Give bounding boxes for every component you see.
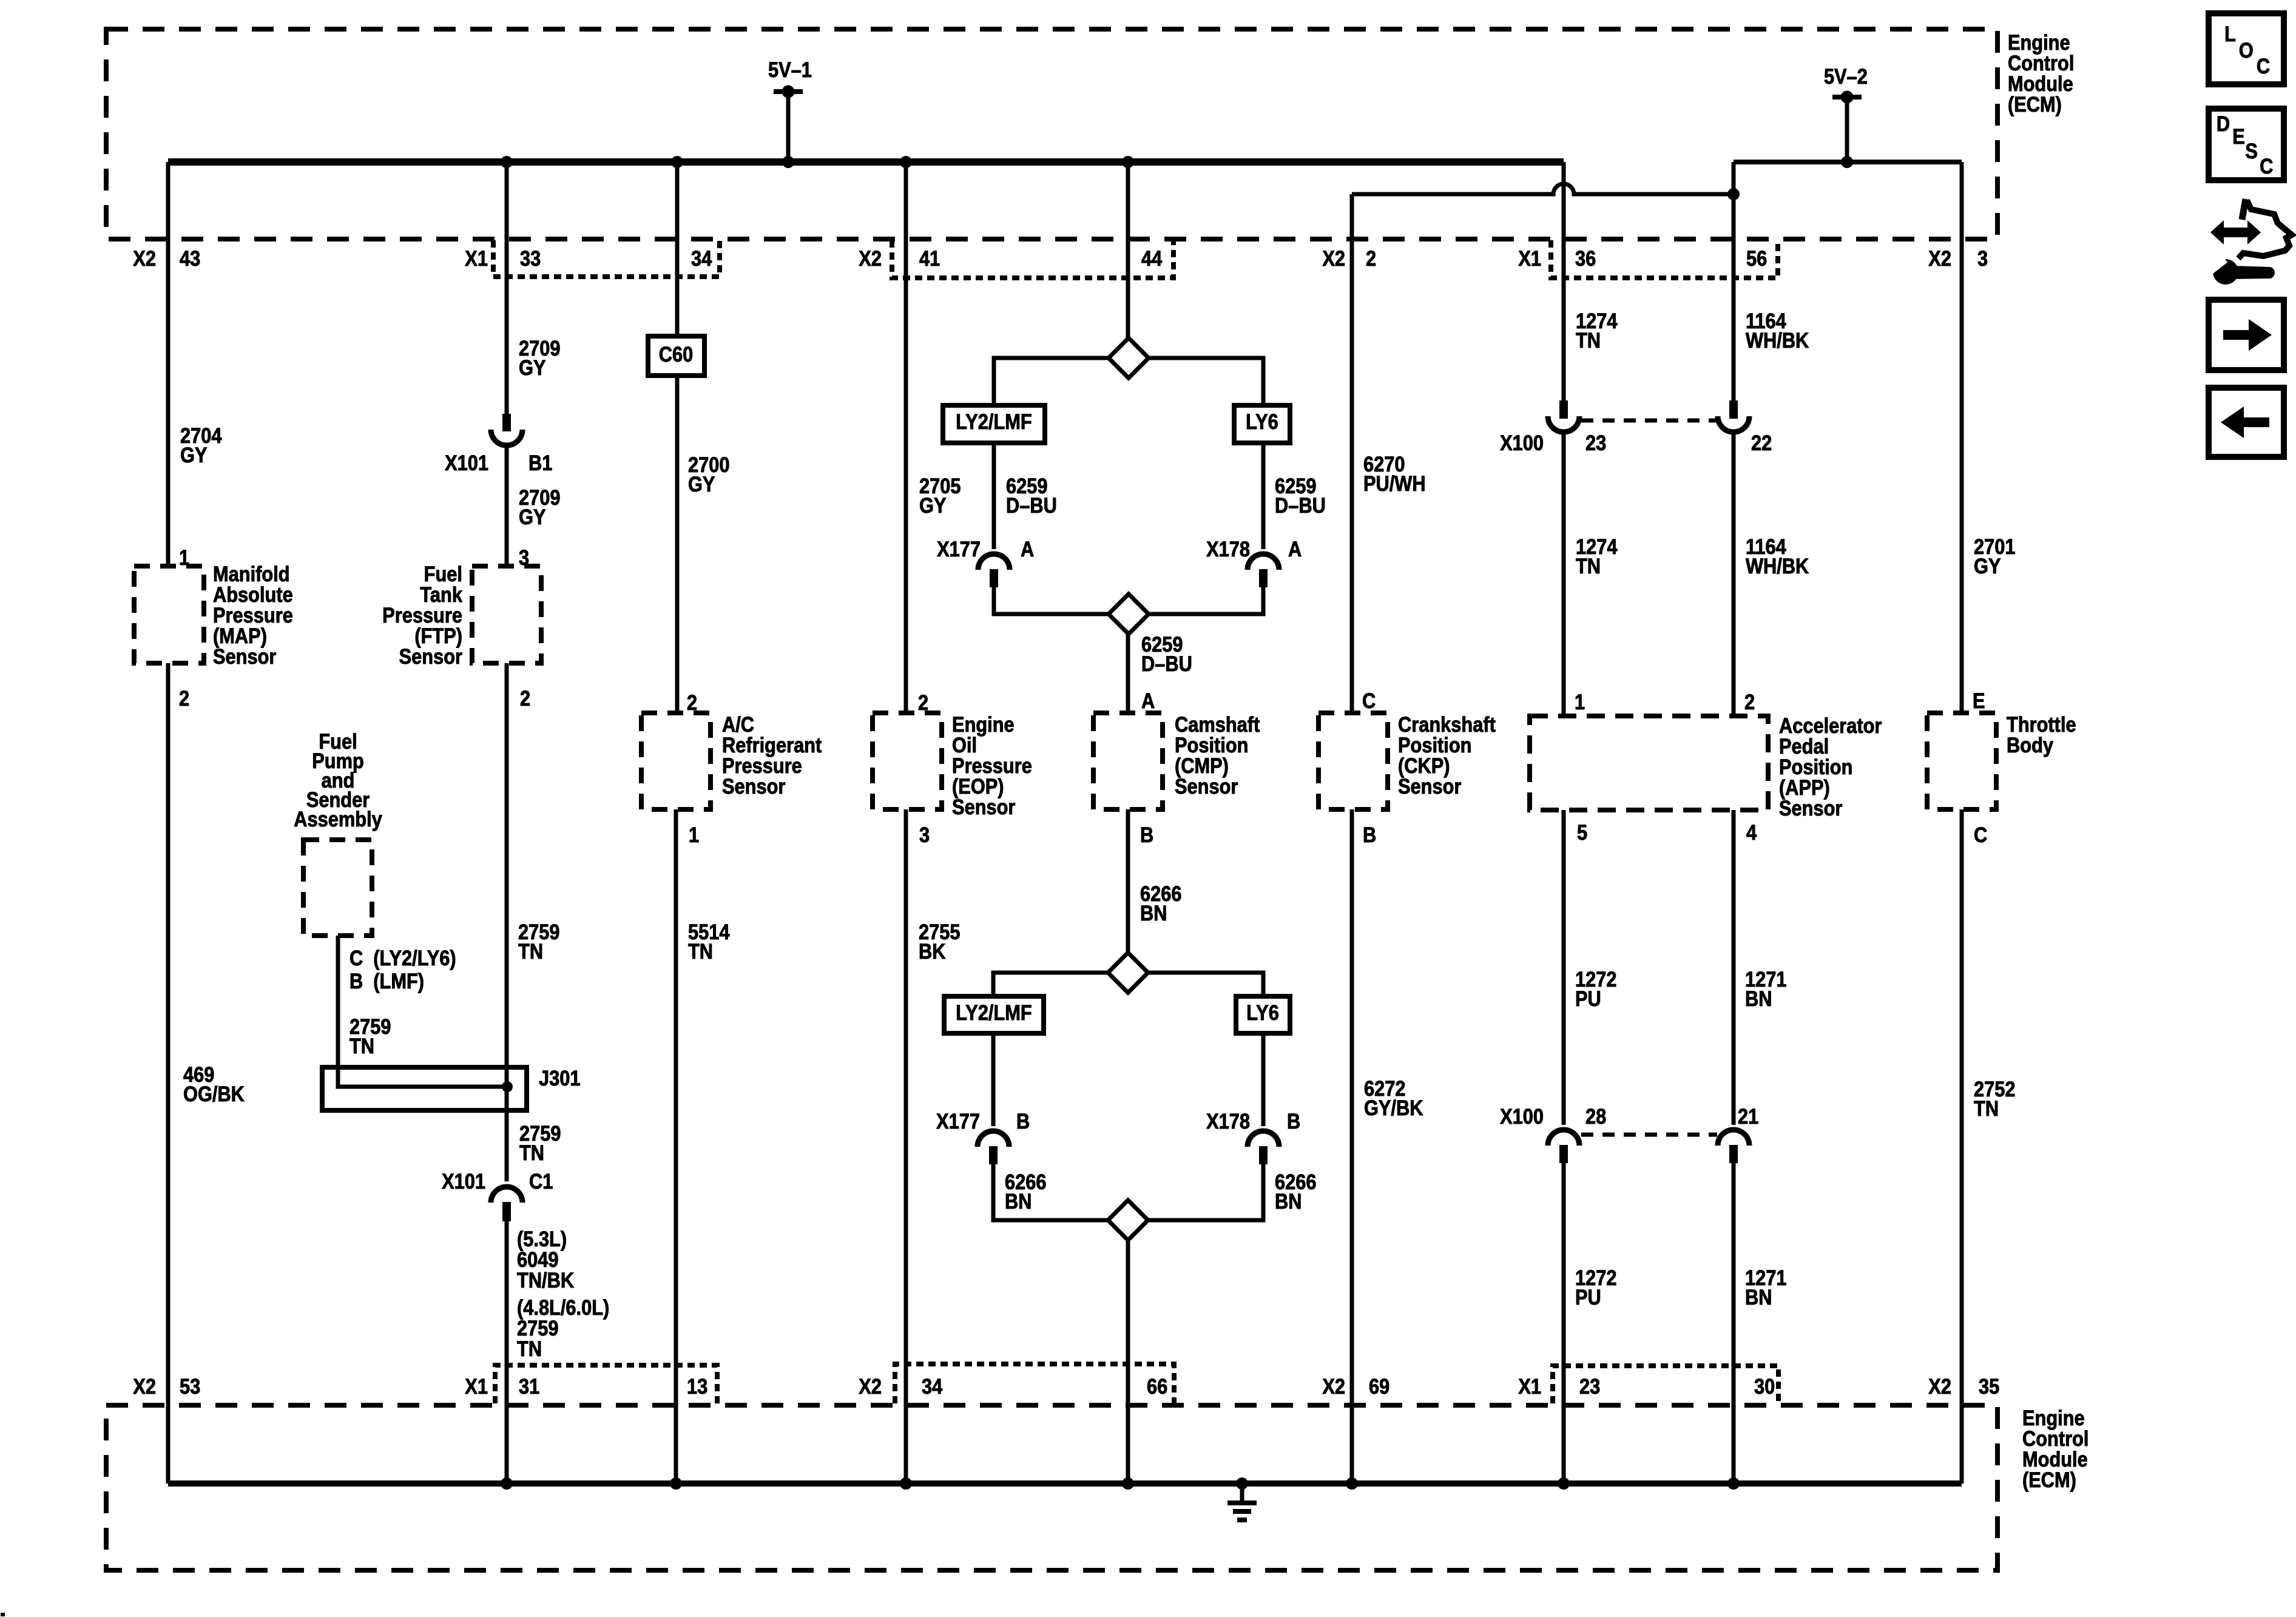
label terminal 34 top [691,246,712,270]
svg-text:B: B [1287,1109,1300,1133]
label LY2/LMF lower [956,1001,1032,1024]
svg-text:35: 35 [1979,1374,1999,1398]
connector group dotted box pins 41-44 top [892,240,1173,278]
svg-text:31: 31 [519,1374,539,1398]
label wire 2709 GY above X101 [519,336,560,379]
svg-text:TN: TN [349,1034,374,1058]
label X2 terminal 3 [1928,246,1951,270]
label Camshaft Position (CMP) Sensor [1175,712,1260,798]
svg-text:PU: PU [1575,1285,1601,1309]
pin A CMP [1141,689,1155,712]
connector X101 C1 male pin [502,1202,511,1221]
svg-text:56: 56 [1746,246,1767,270]
connector X100 dashed link top [1581,419,1717,423]
svg-text:B: B [1140,823,1153,846]
label wire 1274 TN upper [1576,309,1618,352]
wire 6266 BN LY2/LMF branch [991,1033,996,1126]
label terminal B of X177 [1016,1109,1030,1133]
label connector X178 at B [1206,1109,1250,1133]
label X2 terminal 2 [1322,246,1345,270]
splice diamond upper collect [1109,594,1149,634]
svg-text:BK: BK [919,939,946,963]
label connector X101 [445,451,488,474]
svg-text:OG/BK: OG/BK [183,1082,245,1106]
svg-text:X177: X177 [937,537,981,561]
label connector X177 at A [937,537,981,561]
wire 6259 D-BU to CMP pin A [1126,633,1130,713]
node junction ground bus at APP2 wire [1727,1477,1740,1490]
label terminal A of X177 [1021,537,1034,561]
wire 6270 PU/WH CKP signal [1350,194,1354,713]
label wire 2700 GY [688,453,729,496]
svg-text:69: 69 [1369,1374,1389,1398]
node junction ground bus at EOP wire [900,1477,912,1490]
label wire 1272 PU upper [1575,967,1616,1010]
svg-text:Sensor: Sensor [1779,796,1843,820]
wire ground bus bottom [168,1480,1962,1487]
A/C Refrigerant Pressure Sensor dashed box [641,713,711,809]
node junction ground bus at FTP wire [501,1477,513,1490]
svg-text:C: C [1974,823,1987,846]
svg-text:X2: X2 [133,1374,156,1398]
svg-text:X1: X1 [465,1374,488,1398]
splice diamond upper feed [1109,338,1149,378]
svg-text:34: 34 [691,246,712,270]
svg-text:GY: GY [180,443,208,467]
label pin C (LY2/LY6) [349,946,456,970]
svg-text:X2: X2 [133,246,156,270]
label wire 1164 WH/BK upper [1746,309,1809,352]
svg-text:D–BU: D–BU [1141,652,1192,675]
label terminal 44 top [1141,246,1163,270]
icon box arrow right [2209,300,2284,370]
wire branch LY2/LMF upper [994,358,1109,405]
wire 6272 GY/BK to terminal 69 [1350,809,1354,1484]
label wire 2759 TN below J301 [519,1121,561,1164]
Accelerator Pedal Position (APP) Sensor dashed box [1530,716,1768,810]
wire 469 OG/BK MAP low reference [166,663,171,1484]
label wire 6259 D-BU to CMP [1141,632,1192,675]
svg-text:D–BU: D–BU [1006,493,1057,517]
pin 2 MAP [179,686,189,710]
label C60 [659,342,693,366]
Crankshaft Position (CKP) Sensor dashed box [1319,713,1388,809]
svg-text:A: A [1288,537,1302,561]
node junction 5V-1 bus at 5V-1 stem [782,156,794,168]
label wire 6266 BN below CMP [1140,882,1181,925]
connector X178 A female cup [1248,554,1279,570]
label wire 2701 GY [1974,535,2015,578]
label terminal 13 bottom [687,1374,707,1398]
connector X100 22 male pin [1729,400,1738,419]
pin 2 FTP [520,686,530,710]
connector group dotted box pins 33-34 top [493,240,720,277]
label terminal 66 bottom [1147,1374,1167,1398]
connector group dotted box pins 23-30 bottom [1553,1366,1778,1403]
wire below X177 A to splice [994,587,1109,614]
connector X100 28 male pin [1559,1145,1568,1163]
label terminal B of X178 [1287,1109,1300,1133]
connector group dotted box pins 34-66 bottom [895,1364,1174,1403]
engine option box LY2/LMF upper [943,405,1045,443]
ground symbol [1227,1484,1257,1520]
svg-text:TN: TN [517,1337,542,1360]
svg-text:X178: X178 [1206,537,1250,561]
connector X178 B female cup [1248,1131,1279,1147]
svg-text:X100: X100 [1500,1104,1544,1128]
svg-text:X101: X101 [445,451,488,474]
svg-text:2: 2 [179,686,189,710]
svg-text:X1: X1 [465,246,488,270]
wire 6266 BN LY6 branch [1261,1033,1266,1126]
label terminal C1 [529,1169,553,1193]
icon letters LOC [2224,22,2270,78]
svg-text:GY: GY [519,356,546,379]
svg-text:2: 2 [520,686,530,710]
wire 6266 BN from CMP pin B [1126,809,1130,953]
svg-text:TN: TN [1974,1096,1999,1120]
label J301 [539,1066,580,1090]
ECM top dashed box [106,29,1997,239]
svg-text:Assembly: Assembly [294,807,382,831]
label Accelerator Pedal Position (APP) Sensor [1779,714,1882,820]
svg-text:A: A [1021,537,1034,561]
svg-text:C: C [2257,54,2270,78]
svg-text:GY: GY [519,505,546,528]
svg-text:5: 5 [1577,820,1587,844]
svg-text:X2: X2 [859,246,882,270]
node junction J301 [502,1081,513,1092]
connector X101 C1 female cup [491,1187,522,1203]
wire 2705 GY EOP signal [904,162,908,713]
label connector X178 at A [1206,537,1250,561]
svg-text:X2: X2 [1928,246,1951,270]
label wire 1274 TN lower [1576,535,1618,578]
svg-text:E: E [2232,124,2245,148]
svg-text:X2: X2 [1322,1374,1345,1398]
connector X100 22 female cup [1718,416,1749,432]
wire CKP 5V feed link with hop [1352,184,1734,194]
connector X100 23 female cup [1548,416,1579,432]
pin B CMP [1140,823,1153,846]
svg-text:44: 44 [1141,246,1163,270]
svg-text:1: 1 [689,823,699,846]
pin E throttle [1973,689,1985,712]
svg-text:(ECM): (ECM) [2008,92,2062,116]
MAP sensor dashed box [134,566,204,663]
label Fuel Tank Pressure (FTP) Sensor [382,562,462,668]
svg-text:TN/BK: TN/BK [517,1268,574,1292]
icon box arrow left [2209,388,2284,457]
label pin B (LMF) [349,969,424,993]
label wire 2759 TN above J301 [518,920,559,963]
svg-text:43: 43 [180,246,200,270]
engine option box LY2/LMF lower [944,996,1044,1033]
label LY6 lower [1246,1001,1279,1024]
svg-text:3: 3 [919,823,930,846]
svg-text:GY: GY [919,493,947,517]
icon arrow left [2221,407,2269,438]
connector group dotted box pins 36-56 top [1551,240,1778,278]
label Crankshaft Position (CKP) Sensor [1398,712,1496,798]
page artifact dot bottom-left [1,1613,5,1616]
svg-text:23: 23 [1579,1374,1600,1398]
label wire 469 OG/BK [183,1062,245,1106]
pin C throttle [1974,823,1987,846]
svg-text:C (LY2/LY6): C (LY2/LY6) [349,946,456,970]
label 5V-1 [768,58,812,81]
svg-text:21: 21 [1738,1104,1758,1128]
label terminal 30 bottom [1754,1374,1775,1398]
svg-text:LY6: LY6 [1246,410,1278,433]
connector group dotted box pins 31-13 bottom [495,1365,717,1403]
svg-text:PU/WH: PU/WH [1363,471,1426,495]
svg-text:Sensor: Sensor [952,795,1016,819]
wire 2709 GY FTP signal upper [505,162,509,414]
pin 3 EOP [919,823,930,846]
svg-text:5V–2: 5V–2 [1824,64,1868,88]
svg-text:22: 22 [1751,431,1772,454]
connector X101 B1 male pin [502,414,511,431]
connector X177 A female cup [978,554,1010,570]
wire 1272 PU from APP pin 5 [1562,810,1566,1125]
wire branch LY6 upper [1149,358,1263,405]
label wire 1272 PU lower [1575,1266,1616,1309]
svg-text:X1: X1 [1518,1374,1541,1398]
engine option box LY6 upper [1234,405,1290,443]
node junction ground bus at CKP wire [1346,1477,1358,1490]
wire 1274 TN from terminal 36 [1562,162,1566,400]
connector X177 B male pin [989,1146,998,1164]
ECM bottom dashed box [106,1405,1997,1570]
svg-text:34: 34 [922,1374,943,1398]
pin B CKP [1363,823,1376,846]
connector X177 A male pin [990,569,998,587]
5V reference 1 symbol 5V-1 [774,86,803,162]
svg-text:13: 13 [687,1374,707,1398]
Engine Oil Pressure (EOP) Sensor dashed box [873,713,942,809]
svg-text:2: 2 [1744,690,1755,714]
wire 1164 WH/BK from terminal 56 [1732,162,1736,400]
label wire 1271 BN upper [1745,967,1786,1010]
svg-text:X2: X2 [859,1374,882,1398]
label wire 6259 D-BU upper left branch [1006,474,1057,517]
node junction 5V-1 bus at EOP wire [900,156,912,168]
svg-text:B (LMF): B (LMF) [349,969,424,993]
svg-text:TN: TN [518,939,543,963]
svg-text:C60: C60 [659,342,693,366]
label wire 6270 PU/WH [1363,452,1426,495]
wire 6259 D-BU from terminal 44 [1126,162,1130,339]
splice diamond lower collect [1108,1200,1148,1240]
FTP sensor dashed box [472,566,541,663]
svg-text:TN: TN [688,939,713,963]
splice J301 box [322,1067,527,1110]
svg-text:B1: B1 [528,451,552,474]
connector X101 B1 female cup [491,430,522,445]
label Engine Control Module (ECM) bottom [2022,1406,2088,1491]
wire 5V-1 supply bus [168,158,1564,166]
node junction ground bus at C60 wire [670,1477,682,1490]
pin 2 EOP [918,690,928,714]
label connector X100 bottom [1500,1104,1544,1128]
label terminal B1 [528,451,552,474]
label X2 terminal 34 bottom [859,1374,882,1398]
svg-text:C1: C1 [529,1169,553,1193]
node junction 5V-1 bus at C60 wire [671,156,683,168]
pin 1 MAP [179,545,189,569]
label terminal 22 of X100 [1751,431,1772,454]
wire below X178 A to splice [1149,587,1263,614]
label LY2/LMF upper [956,410,1032,433]
wire 6266 BN to terminal 66 [1126,1240,1130,1484]
svg-text:WH/BK: WH/BK [1746,328,1809,352]
svg-text:B: B [1016,1109,1030,1133]
wire 1272 PU to terminal 23 [1562,1163,1566,1484]
svg-text:BN: BN [1275,1189,1302,1213]
svg-text:GY: GY [1974,554,2001,578]
wire 2700 GY below C60 [675,376,680,713]
svg-text:Sensor: Sensor [399,644,463,668]
connector X177 B female cup [977,1131,1009,1147]
label wire 2709 GY below X101 [519,485,560,528]
svg-text:LY2/LMF: LY2/LMF [956,1001,1032,1024]
label terminal 23 of X100 [1585,431,1606,454]
svg-text:X1: X1 [1518,246,1541,270]
label X2 terminal 41 [859,246,882,270]
icon adjust arrows and wrench [2207,199,2292,285]
splice diamond lower feed [1108,953,1148,993]
pin 1 APP [1575,690,1585,714]
label X2 terminal 69 bottom [1322,1374,1345,1398]
svg-text:41: 41 [919,246,940,270]
label X1 terminal 36 [1518,246,1541,270]
label wire 1271 BN lower [1745,1266,1786,1309]
node junction ground bus at APP1 wire [1558,1477,1570,1490]
svg-text:X178: X178 [1206,1109,1250,1133]
wire 2759 TN below J301 [505,1087,509,1181]
svg-text:1: 1 [1575,690,1585,714]
svg-text:33: 33 [520,246,541,270]
svg-text:B: B [1363,823,1376,846]
label X1 terminal 23 bottom [1518,1374,1541,1398]
label X2 terminal 35 bottom [1928,1374,1951,1398]
wire 2755 BK to terminal 34 [904,809,908,1484]
svg-text:GY: GY [688,472,715,496]
node junction ground bus at ground stub wire [1236,1477,1248,1490]
pin 5 APP [1577,820,1587,844]
svg-text:TN: TN [1576,554,1601,578]
label connector X100 top [1500,431,1544,454]
label wire 2755 BK [919,920,960,963]
connector X178 B male pin [1259,1146,1268,1164]
label LY6 upper [1246,410,1278,433]
svg-text:GY/BK: GY/BK [1364,1096,1423,1119]
pin 2 A/C sensor [687,690,697,714]
pin 3 FTP [519,545,529,569]
pin C CKP [1362,689,1376,712]
svg-text:TN: TN [519,1141,544,1164]
svg-text:X2: X2 [1322,246,1345,270]
wire 2752 TN to terminal 35 [1960,809,1964,1484]
svg-text:A: A [1141,689,1155,712]
label Engine Control Module (ECM) top [2008,30,2074,116]
svg-text:C: C [1362,689,1376,712]
label X1 terminal 33 [465,246,488,270]
label X2 terminal 53 [133,1374,156,1398]
svg-text:BN: BN [1140,901,1167,925]
wire 1271 BN to terminal 30 [1732,1163,1736,1484]
label terminal 21 of X100 [1738,1104,1758,1128]
wire 5V-2 supply bus [1734,160,1962,164]
label Engine Oil Pressure (EOP) Sensor [952,712,1032,819]
label X2 terminal 43 [133,246,156,270]
svg-text:30: 30 [1754,1374,1775,1398]
label wire 2705 GY [919,474,961,517]
svg-text:Sensor: Sensor [213,644,277,668]
label wire 2759 TN fuel pump [349,1014,391,1058]
label wire 6272 GY/BK [1364,1076,1423,1119]
svg-text:66: 66 [1147,1374,1167,1398]
svg-text:2: 2 [1366,246,1376,270]
wire 6049 TN/BK / 2759 TN to terminal 31 [505,1221,509,1484]
label 5V-2 [1824,64,1868,88]
svg-text:3: 3 [1977,246,1988,270]
wire 1271 BN from APP pin 4 [1732,810,1736,1125]
svg-text:D: D [2217,112,2230,135]
wire 6259 D-BU LY2/LMF branch [992,443,996,549]
svg-text:J301: J301 [539,1066,580,1090]
svg-text:LY2/LMF: LY2/LMF [956,410,1032,433]
wire below X178 B to splice [1148,1164,1263,1220]
node junction 5V-1 bus at FTP wire [501,156,513,168]
svg-text:5V–1: 5V–1 [768,58,812,81]
label X1 terminal 31 [465,1374,488,1398]
node junction 5V-2 bus at 5V-2 stem [1841,156,1853,168]
label Manifold Absolute Pressure (MAP) Sensor [213,562,293,668]
svg-text:23: 23 [1585,431,1606,454]
icon letters DESC [2217,112,2274,178]
engine option box LY6 lower [1236,996,1290,1033]
label wire 2704 GY [180,424,222,467]
svg-text:O: O [2239,38,2254,62]
svg-text:X177: X177 [936,1109,980,1133]
svg-text:PU: PU [1575,987,1601,1010]
connector C60 box [648,336,704,376]
pin 2 APP [1744,690,1755,714]
pin 4 APP [1746,820,1757,844]
Throttle Body dashed box [1927,713,1996,809]
svg-text:C: C [2260,154,2273,178]
svg-text:LY6: LY6 [1246,1001,1279,1024]
wire 2709 GY below X101 [505,448,509,566]
svg-text:S: S [2245,139,2258,163]
label Throttle Body [2007,712,2076,757]
label A/C Refrigerant Pressure Sensor [722,712,822,798]
pin 1 A/C sensor [689,823,699,846]
svg-text:D–BU: D–BU [1275,493,1326,517]
connector X100 23 male pin [1559,400,1568,419]
label Fuel Pump and Sender Assembly [294,729,382,831]
svg-text:X2: X2 [1928,1374,1951,1398]
wire branch LY6 lower [1148,973,1263,996]
label wire 1164 WH/BK lower [1746,535,1809,578]
svg-text:Body: Body [2007,733,2054,757]
svg-text:4: 4 [1746,820,1757,844]
5V reference 2 symbol 5V-2 [1832,91,1862,162]
wire 2704 GY MAP signal upper [166,162,171,566]
svg-text:BN: BN [1005,1189,1032,1213]
